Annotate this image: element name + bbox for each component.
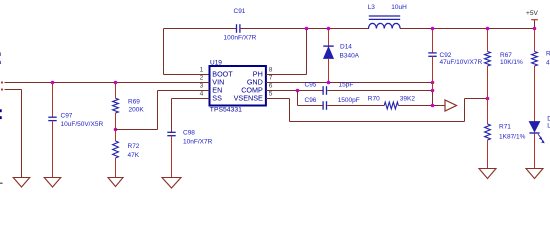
svg-text:2: 2 xyxy=(200,75,204,82)
node comp riser bottom junction xyxy=(431,104,435,108)
wire: top rail mid segment xyxy=(240,28,369,30)
wire: BOOT riser / top rail left segment xyxy=(164,28,237,30)
svg-text:1500pF: 1500pF xyxy=(338,97,360,104)
node D14 top junction xyxy=(327,27,331,31)
svg-text:SS: SS xyxy=(212,94,222,103)
wire: VIN row xyxy=(1,81,3,83)
svg-text:3: 3 xyxy=(200,83,204,90)
svg-text:47uF/10V/X7R: 47uF/10V/X7R xyxy=(440,59,483,66)
power +5V xyxy=(534,20,536,29)
svg-text:8: 8 xyxy=(269,67,273,74)
svg-text:5: 5 xyxy=(269,91,273,98)
svg-text:L3: L3 xyxy=(368,4,376,11)
svg-text:TPS54331: TPS54331 xyxy=(210,106,242,113)
svg-text:D14: D14 xyxy=(340,44,352,51)
node C92 top junction xyxy=(431,27,435,31)
svg-text:100nF/X7R: 100nF/X7R xyxy=(224,35,257,42)
svg-text:C97: C97 xyxy=(61,113,73,120)
ground under LED xyxy=(526,169,543,179)
node comp riser top junction xyxy=(431,89,435,93)
svg-text:R69: R69 xyxy=(128,98,140,105)
node C97 junction xyxy=(51,81,55,85)
svg-text:10uH: 10uH xyxy=(391,4,407,11)
wire: EN route xyxy=(158,90,210,92)
wire: top rail right segment (+5V rail) xyxy=(400,28,535,30)
svg-text:7: 7 xyxy=(269,75,273,82)
svg-text:U19: U19 xyxy=(210,59,222,66)
svg-text:+5V: +5V xyxy=(526,10,539,17)
svg-text:15pF: 15pF xyxy=(339,82,354,89)
svg-text:47K: 47K xyxy=(128,152,140,159)
svg-text:10nF/X7R: 10nF/X7R xyxy=(183,139,213,146)
node R69 junction xyxy=(114,81,118,85)
capacitor C92 xyxy=(432,29,434,53)
wire: BOOT pin wire xyxy=(164,74,210,76)
resistor R70 39K2 xyxy=(384,102,398,109)
node D14 anode junction xyxy=(327,81,331,85)
capacitor C95 xyxy=(322,86,324,95)
node PH junction xyxy=(305,27,309,31)
ground under C97 xyxy=(44,178,61,188)
capacitor C91 xyxy=(236,24,238,33)
wire: VSENSE pin route xyxy=(266,98,290,100)
wire: C95 right to riser xyxy=(327,90,432,92)
resistor R67 10K xyxy=(487,29,489,52)
ground left stub xyxy=(13,178,30,188)
wire: COMP drop to C96 row xyxy=(297,91,299,106)
wire: COMP pin to C95 xyxy=(266,90,323,92)
svg-text:VSENSE: VSENSE xyxy=(234,94,263,103)
resistor R69 200K xyxy=(115,83,117,99)
wire: SS route xyxy=(172,98,210,100)
svg-text:47: 47 xyxy=(546,60,550,67)
svg-text:C91: C91 xyxy=(234,8,246,15)
node GND row / C92 junction xyxy=(431,81,435,85)
svg-text:R70: R70 xyxy=(368,96,380,103)
svg-text:39K2: 39K2 xyxy=(400,96,416,103)
svg-text:1K87/1%: 1K87/1% xyxy=(499,133,526,140)
node feedback junction xyxy=(486,97,490,101)
capacitor C97 xyxy=(52,83,54,118)
node COMP junction xyxy=(296,89,300,93)
svg-text:6: 6 xyxy=(269,83,273,90)
svg-text:10uF/50V/X5R: 10uF/50V/X5R xyxy=(61,121,104,128)
resistor R71 1K87 xyxy=(487,99,489,125)
capacitor C98 xyxy=(167,131,175,133)
wire: R70 to off-page triangle xyxy=(398,105,445,107)
wire: comp network right riser xyxy=(432,91,434,106)
wire: GND pin row to C92 column xyxy=(266,82,433,84)
svg-text:10K/1%: 10K/1% xyxy=(500,59,523,66)
svg-text:R67: R67 xyxy=(500,52,512,59)
svg-text:C95: C95 xyxy=(305,82,317,89)
svg-text:200K: 200K xyxy=(129,107,145,114)
svg-text:1: 1 xyxy=(200,67,204,74)
svg-text:C92: C92 xyxy=(440,52,452,59)
IC U19 TPS54331 box xyxy=(210,66,266,106)
led D (blue LED) xyxy=(534,66,536,122)
ground under R71 xyxy=(479,169,496,179)
resistor R (right edge, clipped label) xyxy=(534,29,536,52)
inductor L3 xyxy=(369,23,401,28)
diode D14 B340A xyxy=(328,29,330,46)
capacitor C96 xyxy=(322,101,324,110)
wire: PH pin to top rail xyxy=(266,74,307,76)
node EN divider junction xyxy=(114,128,118,132)
svg-text:R72: R72 xyxy=(128,143,140,150)
off-page connector triangle xyxy=(445,100,457,111)
svg-text:R71: R71 xyxy=(499,124,511,131)
svg-text:B340A: B340A xyxy=(340,53,360,60)
ground under R72 xyxy=(108,178,123,187)
svg-text:4: 4 xyxy=(200,91,204,98)
ground under C98 xyxy=(162,178,181,189)
svg-text:R6: R6 xyxy=(546,50,550,57)
svg-text:C98: C98 xyxy=(183,129,195,136)
wire: C96 to R70 xyxy=(327,105,384,107)
node R67 top junction xyxy=(486,27,490,31)
resistor R72 47K xyxy=(115,130,117,142)
wire: left return stub xyxy=(1,88,3,90)
svg-text:C96: C96 xyxy=(305,97,317,104)
